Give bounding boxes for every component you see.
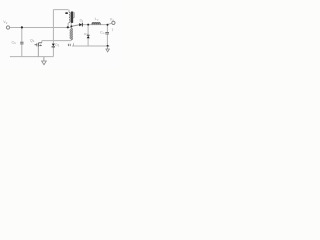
svg-text:Q1: Q1 (30, 38, 35, 43)
svg-text:Vg: Vg (3, 20, 7, 25)
svg-text:Co: Co (100, 30, 105, 35)
svg-text:D1: D1 (80, 19, 84, 24)
svg-text:D3: D3 (55, 43, 59, 48)
svg-text:Lo: Lo (95, 17, 99, 22)
svg-text:Cb: Cb (12, 40, 17, 45)
svg-text:Vo: Vo (110, 17, 115, 22)
